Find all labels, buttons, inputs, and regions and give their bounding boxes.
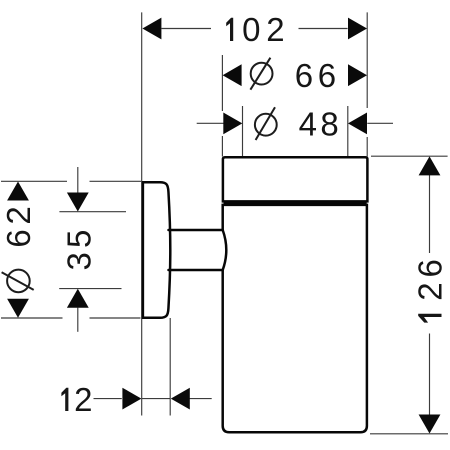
35 bottom extension line y=288.6 bbox=[59, 288, 121, 290]
dimension dia62 diameter symbol (rotated) bbox=[2, 270, 34, 293]
svg-text:6: 6 bbox=[318, 57, 336, 94]
right extension line x=367.2 bbox=[366, 12, 368, 156]
svg-text:5: 5 bbox=[60, 230, 97, 248]
svg-text:2: 2 bbox=[74, 381, 92, 418]
dimension dia66 right arrow bbox=[348, 64, 367, 86]
svg-text:4: 4 bbox=[299, 106, 317, 143]
wall plate (rosette, side view) bbox=[143, 182, 170, 318]
wall line / extension line x=141.7 bbox=[141, 12, 143, 415]
dia48 right extension line x=347.8 bbox=[347, 106, 349, 157]
dimension 35 bottom arrow bbox=[67, 289, 89, 308]
svg-text:3: 3 bbox=[60, 252, 97, 270]
dimension dia48 left arrow bbox=[223, 113, 242, 135]
dimension 126 top arrow bbox=[419, 156, 441, 175]
dimension 35 top arrow bbox=[67, 193, 89, 212]
stem flare at cup bbox=[223, 230, 227, 270]
svg-text:6: 6 bbox=[412, 259, 449, 277]
svg-text:6: 6 bbox=[0, 229, 37, 247]
dimension 126 bottom arrow bbox=[419, 415, 441, 434]
stem top line bbox=[169, 229, 223, 232]
126 bottom extension line y=433.8 bbox=[370, 433, 448, 435]
svg-text:8: 8 bbox=[320, 106, 338, 143]
dia66 left extension line x=222.4 (interrupted at arrow) bbox=[221, 55, 223, 157]
svg-text:0: 0 bbox=[242, 11, 260, 48]
dimension dia62 top arrow bbox=[7, 182, 29, 201]
dimension dia62 bottom arrow bbox=[7, 299, 29, 318]
dimension dia66 diameter symbol bbox=[250, 58, 272, 90]
plate front extension line x=170.2 bbox=[169, 318, 171, 416]
126 top extension line y=156.2 bbox=[371, 155, 448, 157]
cup body bbox=[223, 205, 367, 432]
cup rim/body junction line bbox=[224, 202, 367, 205]
dimension dia48 right leader bbox=[367, 122, 393, 124]
dimension dia48 left leader bbox=[197, 122, 224, 124]
dimension dia48 right arrow bbox=[348, 113, 367, 135]
dia48 left extension line x=242.5 bbox=[242, 106, 244, 157]
svg-text:2: 2 bbox=[0, 206, 37, 224]
dia62 top extension line y=181.3 bbox=[1, 180, 141, 182]
svg-text:6: 6 bbox=[295, 57, 313, 94]
dimension 12 left arrow bbox=[122, 388, 141, 410]
dimension 102 right arrow bbox=[348, 18, 367, 40]
dimension 12 text bbox=[61, 388, 68, 411]
dimension dia66 left arrow bbox=[223, 64, 242, 86]
dia62 bottom extension line y=318 bbox=[1, 317, 141, 319]
dimension 102 line segments bbox=[162, 28, 348, 30]
dimension 102 left arrow bbox=[142, 18, 161, 40]
dimension 35 bottom arrow tail bbox=[77, 308, 79, 332]
35 top extension line y=211.7 bbox=[59, 211, 126, 213]
dimension 12 leader bbox=[94, 398, 212, 400]
stem bottom line bbox=[169, 269, 223, 272]
dimension dia48 diameter symbol bbox=[255, 107, 277, 140]
svg-text:2: 2 bbox=[412, 282, 449, 300]
svg-text:2: 2 bbox=[266, 11, 284, 48]
dimension 102 text bbox=[226, 18, 233, 41]
dimension 12 right arrow bbox=[171, 388, 190, 410]
cup rim bbox=[223, 157, 368, 201]
dimension 126 line segments x=429.5 bbox=[429, 175, 431, 415]
dimension 35 top arrow tail bbox=[77, 167, 79, 193]
